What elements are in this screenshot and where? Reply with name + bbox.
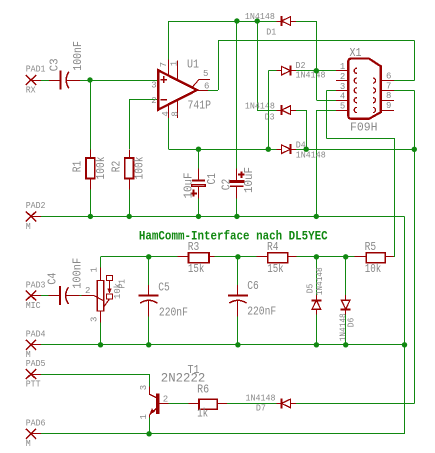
wire PAD1 to C3 bbox=[41, 80, 49, 82]
wire to X1 pin6 bbox=[394, 80, 414, 82]
svg-text:8: 8 bbox=[386, 91, 391, 101]
svg-text:PTT: PTT bbox=[26, 380, 41, 390]
capacitor C3 bbox=[47, 41, 85, 90]
svg-text:1N4148: 1N4148 bbox=[315, 267, 325, 295]
diode D2 bbox=[277, 61, 326, 81]
svg-text:R4: R4 bbox=[267, 240, 279, 254]
wire C4 to P1 wiper bbox=[79, 295, 81, 297]
svg-text:C1: C1 bbox=[205, 173, 219, 185]
wire node C to RTS column bbox=[306, 149, 414, 151]
wire R1 to ground rail bbox=[90, 190, 92, 217]
wire V- to D2 bbox=[268, 71, 276, 150]
svg-text:HamComm-Interface nach DL5YEC: HamComm-Interface nach DL5YEC bbox=[139, 230, 328, 244]
svg-text:100k: 100k bbox=[94, 157, 108, 180]
svg-text:15k: 15k bbox=[188, 262, 205, 276]
wire output up bbox=[218, 41, 220, 90]
svg-text:U1: U1 bbox=[187, 57, 199, 71]
trimmer P1 (10k) bbox=[81, 267, 128, 322]
svg-text:15k: 15k bbox=[267, 262, 284, 276]
svg-text:5: 5 bbox=[203, 69, 208, 79]
svg-text:C3: C3 bbox=[47, 58, 61, 71]
svg-text:C4: C4 bbox=[45, 273, 59, 285]
wire X1 pin3 TxD bbox=[327, 90, 395, 256]
svg-text:PAD5: PAD5 bbox=[26, 359, 46, 369]
wire R2 to ground rail bbox=[129, 190, 131, 217]
wire op-amp pin4 down to V- rail bbox=[168, 118, 170, 149]
svg-text:3: 3 bbox=[151, 81, 156, 91]
node X1 pin5 on ground rail bbox=[314, 214, 319, 219]
capacitor C5 (220nF) bbox=[139, 281, 188, 320]
svg-text:2: 2 bbox=[85, 286, 90, 296]
resistor R4 (15k) bbox=[256, 240, 296, 276]
svg-text:1N4148: 1N4148 bbox=[296, 151, 326, 161]
wire V- rail bbox=[169, 149, 277, 151]
connector X1 (F09H DB9) bbox=[336, 46, 394, 135]
svg-text:1: 1 bbox=[139, 414, 149, 419]
svg-text:PAD1: PAD1 bbox=[26, 65, 46, 75]
svg-text:R1: R1 bbox=[71, 161, 85, 173]
wire C5 bottom bbox=[148, 316, 150, 344]
svg-text:MIC: MIC bbox=[26, 301, 41, 311]
diode D1 bbox=[245, 12, 296, 37]
svg-text:741P: 741P bbox=[188, 99, 212, 113]
svg-text:D2: D2 bbox=[296, 61, 306, 71]
wire filter row left bbox=[101, 256, 178, 258]
node V+ rail / D3 branch bbox=[255, 18, 260, 23]
wire op-amp pin7 up to V+ rail bbox=[168, 21, 170, 60]
wire P1 top to filter row bbox=[100, 257, 102, 268]
wire V+ rail left segment bbox=[169, 21, 277, 23]
transistor T1 (2N2222) bbox=[139, 363, 205, 420]
pad PAD5 bbox=[26, 359, 46, 390]
svg-text:3: 3 bbox=[340, 82, 345, 92]
svg-text:3: 3 bbox=[139, 385, 149, 390]
node C2 on ground rail bbox=[234, 214, 239, 219]
svg-text:X1: X1 bbox=[350, 46, 362, 60]
svg-text:R6: R6 bbox=[197, 383, 209, 397]
wire node B to X1 pin1 bbox=[316, 70, 336, 72]
node C6 top bbox=[235, 254, 240, 259]
wire C6 bottom bbox=[237, 316, 239, 344]
svg-text:R3: R3 bbox=[188, 240, 200, 254]
node C1 top on V- rail bbox=[196, 147, 201, 152]
pad PAD1 bbox=[26, 65, 46, 96]
op-amp U1 (741P) bbox=[151, 57, 211, 118]
svg-text:2: 2 bbox=[340, 72, 345, 82]
diode D3 bbox=[245, 102, 296, 123]
capacitor C2 (10uF) bbox=[220, 167, 257, 198]
svg-text:5: 5 bbox=[340, 101, 345, 111]
wire node B down to X1 pin4 bbox=[316, 71, 336, 101]
svg-text:F09H: F09H bbox=[350, 121, 378, 135]
svg-text:PAD2: PAD2 bbox=[26, 201, 46, 211]
wire D6 bottom bbox=[345, 315, 347, 345]
svg-text:C5: C5 bbox=[158, 281, 170, 295]
node C1 on ground rail bbox=[196, 214, 201, 219]
wire R4 to R5 bbox=[297, 256, 355, 258]
pad PAD4 bbox=[26, 330, 46, 361]
wire ground rail down right side bbox=[404, 216, 406, 344]
wire C1 top bbox=[198, 149, 200, 168]
capacitor C6 (220nF) bbox=[228, 279, 276, 319]
resistor R3 (15k) bbox=[178, 240, 215, 276]
svg-text:D1: D1 bbox=[266, 27, 276, 37]
diode D6 bbox=[338, 295, 356, 341]
svg-text:1: 1 bbox=[89, 267, 99, 272]
node C5 bottom bbox=[146, 342, 151, 347]
pad PAD3 bbox=[26, 280, 46, 311]
svg-text:220nF: 220nF bbox=[247, 305, 276, 319]
node D6 top bbox=[343, 254, 348, 259]
wire C3 to node A bbox=[80, 80, 90, 82]
wire R5 right to TxD column bbox=[394, 256, 395, 258]
wire T1 emitter to bottom rail bbox=[149, 418, 151, 434]
title text bbox=[139, 230, 328, 244]
resistor R1 bbox=[71, 149, 108, 189]
svg-text:10uF: 10uF bbox=[182, 173, 196, 199]
svg-text:PAD4: PAD4 bbox=[26, 330, 46, 340]
svg-text:D7: D7 bbox=[256, 404, 266, 414]
wire C5 top bbox=[148, 257, 150, 285]
svg-text:7: 7 bbox=[159, 62, 169, 67]
svg-text:10k: 10k bbox=[365, 262, 382, 276]
svg-text:M: M bbox=[26, 439, 31, 449]
svg-text:100nF: 100nF bbox=[71, 258, 85, 289]
svg-text:1: 1 bbox=[340, 62, 345, 72]
svg-text:RX: RX bbox=[26, 85, 36, 95]
svg-text:100k: 100k bbox=[133, 157, 147, 180]
svg-text:C2: C2 bbox=[220, 179, 234, 191]
diode D5 bbox=[306, 267, 326, 314]
svg-text:D6: D6 bbox=[347, 318, 357, 328]
node C5 top bbox=[146, 254, 151, 259]
wire R3 to R4 bbox=[214, 256, 256, 258]
wire T1 base to R6 bbox=[168, 403, 188, 405]
node D2 branch on V- rail bbox=[266, 147, 271, 152]
svg-text:1: 1 bbox=[170, 61, 180, 66]
capacitor C4 bbox=[45, 258, 84, 305]
wire node A down to R1 bbox=[90, 80, 92, 149]
svg-text:1N4148: 1N4148 bbox=[245, 102, 275, 112]
wire D5 top bbox=[316, 257, 318, 295]
wire output rail bbox=[218, 40, 414, 42]
node P1 bottom bbox=[98, 342, 103, 347]
svg-text:D5: D5 bbox=[306, 284, 316, 294]
wire ground column lower bbox=[404, 345, 406, 434]
wire D4 to node C bbox=[296, 149, 306, 151]
svg-text:8: 8 bbox=[171, 111, 181, 116]
svg-text:PAD3: PAD3 bbox=[26, 280, 46, 290]
svg-text:100nF: 100nF bbox=[71, 41, 85, 71]
svg-text:R5: R5 bbox=[365, 240, 377, 254]
wire D7 to RTS column bbox=[296, 403, 414, 405]
node R1 on ground rail bbox=[88, 214, 93, 219]
wire DTR column down to node B bbox=[316, 21, 318, 71]
node T1 emitter on bottom rail bbox=[146, 431, 151, 436]
node ground column bbox=[402, 342, 407, 347]
node C (D3/D4 junction) bbox=[304, 147, 309, 152]
wire node A to op-amp pin3 bbox=[90, 80, 157, 82]
wire X1 pin5 to ground rail bbox=[316, 110, 336, 216]
svg-text:7: 7 bbox=[386, 81, 391, 91]
wire op-amp pin2 to R2 bbox=[129, 100, 157, 150]
svg-text:2: 2 bbox=[151, 96, 156, 106]
svg-text:M: M bbox=[26, 222, 31, 232]
diode D4 bbox=[277, 140, 326, 160]
wire D2 to node B bbox=[296, 70, 316, 72]
resistor R5 (10k) bbox=[355, 240, 394, 276]
wire X1 pin7 RTS bbox=[394, 90, 415, 149]
svg-text:10uF: 10uF bbox=[242, 167, 256, 193]
wire output rail down right side bbox=[414, 41, 416, 81]
wire R6 to D7 bbox=[227, 403, 277, 405]
resistor R6 (1k) bbox=[188, 383, 227, 421]
node D5 bottom bbox=[314, 342, 319, 347]
wire ground rail 2 bbox=[41, 344, 405, 346]
svg-text:PAD6: PAD6 bbox=[26, 419, 46, 429]
pad PAD2 bbox=[26, 201, 46, 232]
svg-text:6: 6 bbox=[386, 72, 391, 82]
wire D6 top bbox=[345, 257, 347, 295]
svg-text:D3: D3 bbox=[265, 112, 275, 122]
svg-text:R2: R2 bbox=[110, 161, 124, 173]
node C6 bottom bbox=[235, 342, 240, 347]
wire V+ to C2 bbox=[236, 21, 238, 169]
wire C6 top bbox=[237, 257, 239, 285]
wire V+ to D3 bbox=[257, 21, 276, 111]
wire op-amp pin6 output bbox=[208, 90, 218, 92]
node D (RTS column/V- diode rail) bbox=[412, 147, 417, 152]
node B (D1/D2/X1 pins 1-4) bbox=[314, 68, 319, 73]
svg-text:1N4148: 1N4148 bbox=[246, 393, 276, 403]
capacitor C1 (10uF) bbox=[182, 169, 219, 199]
wire RTS column down to D7 bbox=[414, 149, 416, 403]
svg-text:3: 3 bbox=[89, 317, 99, 322]
wire P1 bottom to ground rail 2 bbox=[100, 323, 102, 345]
svg-text:4: 4 bbox=[340, 92, 345, 102]
svg-text:10k: 10k bbox=[113, 283, 123, 299]
svg-text:1N4148: 1N4148 bbox=[296, 71, 326, 81]
svg-text:1k: 1k bbox=[197, 407, 208, 421]
wire ground rail bbox=[41, 216, 405, 218]
wire D5 bottom bbox=[316, 315, 318, 345]
wire D1 to DTR column bbox=[296, 21, 316, 23]
wire PAD3 to C4 bbox=[41, 295, 49, 297]
node D5 top bbox=[314, 254, 319, 259]
wire C2 bottom to ground bbox=[236, 198, 238, 216]
svg-text:9: 9 bbox=[386, 101, 391, 111]
wire D3 to node C bbox=[296, 110, 307, 149]
node V+ rail / C2 branch bbox=[234, 18, 239, 23]
node D6 bottom bbox=[343, 342, 348, 347]
svg-text:C6: C6 bbox=[247, 279, 259, 293]
wire PTT to T1 collector bbox=[41, 374, 150, 387]
resistor R2 bbox=[110, 149, 147, 189]
diode D7 bbox=[246, 393, 297, 413]
wire C1 bottom to ground bbox=[198, 198, 200, 216]
wire bottom rail bbox=[41, 433, 405, 435]
node R2 on ground rail bbox=[127, 214, 132, 219]
svg-text:2: 2 bbox=[163, 395, 168, 405]
svg-text:220nF: 220nF bbox=[159, 305, 188, 319]
pad PAD6 bbox=[26, 419, 46, 450]
node A (junction C3/R1/op-amp pin3) bbox=[87, 77, 92, 82]
svg-text:1N4148: 1N4148 bbox=[245, 12, 275, 22]
